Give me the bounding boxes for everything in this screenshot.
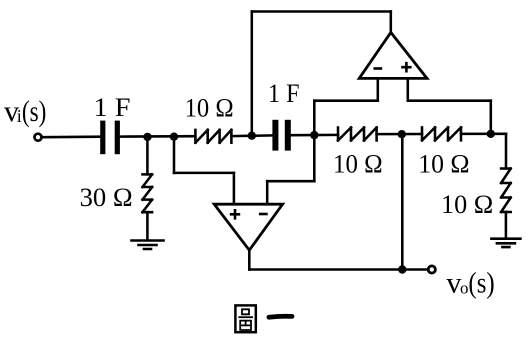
svg-text:1 F: 1 F (268, 79, 300, 108)
wire (248, 250, 251, 269)
wire (43, 135, 101, 138)
wire (266, 181, 269, 204)
op-amp U1 (top) (359, 32, 427, 78)
wire (314, 99, 378, 102)
wire (174, 172, 234, 175)
resistor R1 (10 ohm) (195, 130, 231, 143)
wire (461, 133, 506, 136)
wire (313, 135, 316, 181)
label vi(s) (4, 95, 46, 128)
wire (505, 134, 508, 169)
wire (292, 134, 338, 137)
wire (490, 101, 493, 134)
svg-text:10 Ω: 10 Ω (441, 190, 493, 219)
op-amp U2 (bottom) (214, 204, 282, 250)
wire (407, 78, 410, 100)
op-amp U1 plus (401, 62, 411, 73)
wire (313, 101, 316, 135)
wire (408, 99, 491, 102)
wire (120, 135, 196, 138)
wire (233, 173, 236, 204)
resistor R30 (30 ohm) (143, 174, 153, 212)
node E (398, 130, 406, 138)
wire (231, 134, 273, 137)
svg-text:10 Ω: 10 Ω (333, 149, 383, 178)
wire (146, 137, 149, 175)
wire (252, 10, 391, 13)
svg-text:1 F: 1 F (94, 93, 131, 122)
wire (249, 268, 427, 271)
capacitor C2 (1 F) (272, 120, 290, 151)
caption: figure title (tu yi) (235, 305, 292, 332)
ground (132, 241, 164, 250)
output terminal vo (428, 266, 435, 273)
svg-text:o: o (460, 279, 469, 298)
svg-text:(s): (s) (468, 267, 494, 300)
label vo(s) (446, 267, 494, 300)
op-amp U2 minus (259, 213, 268, 216)
wire (505, 212, 508, 238)
node A (143, 133, 151, 141)
wire (390, 12, 393, 33)
svg-text:10 Ω: 10 Ω (418, 149, 469, 178)
node G (398, 265, 406, 273)
svg-text:30 Ω: 30 Ω (80, 183, 133, 212)
node C (248, 132, 256, 140)
glyph tu (outer box) (235, 305, 255, 332)
node F (487, 130, 495, 138)
glyph tu (inner strokes) (242, 309, 249, 314)
capacitor C1 (1 F) (100, 121, 120, 155)
ground (491, 239, 520, 247)
input terminal vi (35, 134, 42, 141)
wire (146, 212, 149, 239)
wire (401, 134, 404, 269)
wire (377, 78, 380, 100)
glyph yi (horizontal stroke) (269, 314, 292, 320)
wire (267, 180, 314, 183)
node D (310, 131, 318, 139)
resistor R3 (10 ohm) (422, 127, 461, 140)
svg-text:10 Ω: 10 Ω (185, 93, 234, 122)
wire (251, 12, 254, 136)
node B (170, 133, 178, 141)
wire (173, 137, 176, 173)
op-amp U1 minus (373, 67, 382, 70)
wire (377, 133, 422, 136)
resistor R2 (10 ohm) (338, 128, 377, 141)
svg-text:(s): (s) (22, 95, 47, 128)
op-amp U2 plus (230, 209, 240, 220)
resistor R4 (10 ohm) (501, 169, 511, 213)
